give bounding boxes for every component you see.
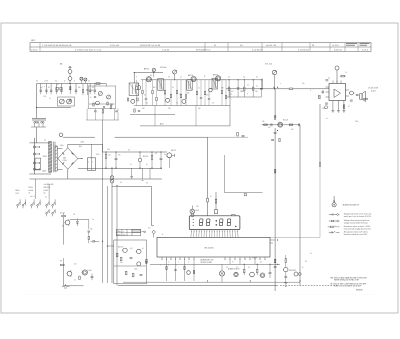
wire J1 stem xyxy=(69,80,71,83)
svg-text:100: 100 xyxy=(108,154,111,156)
osc internal wire xyxy=(89,103,115,105)
junction dot 30 xyxy=(238,79,239,80)
junction dot 4 xyxy=(106,152,107,153)
wire bottom h2 xyxy=(123,281,300,283)
wire display feed left xyxy=(207,137,209,216)
svg-text:C8: C8 xyxy=(73,214,75,216)
wire clock feed L xyxy=(118,187,154,226)
bridge center label xyxy=(62,157,67,162)
capacitor C37 xyxy=(140,275,143,276)
svg-text:9.6 41 x08: 9.6 41 x08 xyxy=(110,45,119,47)
connector J1 upper circle xyxy=(68,70,72,74)
resistor R41 on feed xyxy=(207,198,209,202)
wire right bus lower xyxy=(274,128,276,291)
wire bottom h1 xyxy=(150,263,280,265)
svg-text:1k: 1k xyxy=(74,280,76,282)
legend symbol row 4 xyxy=(329,231,340,233)
svg-text:14: 14 xyxy=(236,267,238,269)
wire alarm left v xyxy=(63,263,65,286)
wire det corner xyxy=(262,78,264,88)
osc under rail xyxy=(86,119,119,121)
display colon xyxy=(216,220,217,225)
svg-text:5: 5 xyxy=(176,265,177,267)
wire TR2 stem xyxy=(174,74,176,79)
junction dot 29 xyxy=(229,79,230,80)
svg-text:220: 220 xyxy=(255,91,258,93)
junction dot 26 xyxy=(277,240,278,241)
svg-text:120: 120 xyxy=(179,94,182,96)
op-amp U1 box xyxy=(329,84,346,101)
voltage tap 4 xyxy=(33,168,39,170)
svg-text:4x: 4x xyxy=(310,253,312,255)
transistor Q1 xyxy=(95,101,99,105)
svg-text:2-98: 2-98 xyxy=(43,96,46,98)
svg-text:120: 120 xyxy=(168,108,171,110)
variable capacitor CV1 xyxy=(59,99,64,104)
IC pin drop 1 xyxy=(166,260,167,281)
voltage tap 1 xyxy=(33,146,39,148)
wire dial line b xyxy=(115,136,208,138)
svg-text:a4: a4 xyxy=(44,193,46,195)
capacitor C40 xyxy=(284,272,287,282)
svg-text:1 2-96 4x32 R4 30x 96-89 8a-4: 1 2-96 4x32 R4 30x 96-89 8a-4 t08 xyxy=(42,44,71,47)
svg-text:x8: x8 xyxy=(92,87,94,89)
svg-text:0-4 84: 0-4 84 xyxy=(44,190,49,192)
capacitor C24 xyxy=(356,95,359,96)
wire bus A upper join xyxy=(102,144,104,152)
wire dial line a xyxy=(63,136,95,138)
junction dot 32 xyxy=(253,79,254,80)
svg-text:41: 41 xyxy=(49,98,51,100)
svg-text:ALARM INDICATOR: ALARM INDICATOR xyxy=(343,204,360,207)
pilot lamp LP1b xyxy=(110,179,114,183)
switch contact 4 xyxy=(37,199,40,208)
resistor R21 xyxy=(319,95,321,99)
diode D4 xyxy=(91,240,100,242)
wire IF entry xyxy=(133,73,135,84)
display digit 3 xyxy=(219,219,223,226)
wire secondary bottom xyxy=(57,169,62,171)
svg-text:94: 94 xyxy=(256,77,258,79)
svg-text:BC148: BC148 xyxy=(118,247,123,249)
junction dot 1 xyxy=(36,107,37,108)
svg-text:MK 50250: MK 50250 xyxy=(204,248,214,250)
transistor Q23 small xyxy=(187,271,191,275)
wire dial line c xyxy=(208,136,249,138)
svg-text:220: 220 xyxy=(196,206,199,208)
svg-text:1n: 1n xyxy=(198,88,200,90)
resistor R40 xyxy=(125,271,127,275)
svg-text:455 kHz: 455 kHz xyxy=(160,67,167,69)
svg-text:7: 7 xyxy=(185,265,186,267)
transistor Q4 xyxy=(191,76,196,81)
display digit 4 xyxy=(227,219,231,226)
svg-text:x0: x0 xyxy=(256,85,258,87)
wire mains top xyxy=(30,142,50,144)
display digit 2 xyxy=(206,219,210,226)
svg-text:22k: 22k xyxy=(90,229,93,231)
option table dividers xyxy=(122,229,132,236)
IC pin drop 6 xyxy=(239,260,241,265)
det drops xyxy=(229,80,261,97)
svg-text:34 964-808 9 0 4: 34 964-808 9 0 4 xyxy=(196,49,210,51)
svg-text:1k: 1k xyxy=(247,85,249,87)
legend text row 2 xyxy=(344,219,370,224)
wire IF agc line xyxy=(140,125,230,127)
wire volume line xyxy=(226,88,329,90)
svg-text:BD136: BD136 xyxy=(171,150,176,152)
wire tuner left drop xyxy=(36,84,38,108)
resistor R42 on feed xyxy=(215,199,217,203)
transistor Q9 xyxy=(209,88,213,92)
junction dot 31 xyxy=(244,79,245,80)
clock IC top right pins xyxy=(270,240,275,243)
small box above display xyxy=(215,210,218,214)
svg-text:4: 4 xyxy=(88,161,89,163)
IF transformer T1 box xyxy=(158,79,164,91)
display pin wires xyxy=(191,231,238,237)
svg-text:40: 40 xyxy=(228,77,230,79)
svg-text:41: 41 xyxy=(214,45,216,47)
capacitor C36 xyxy=(130,258,133,259)
junction dot 24 xyxy=(207,281,208,282)
svg-text:t04 98 t4 38 9 x1 0-4 86: t04 98 t4 38 9 x1 0-4 86 xyxy=(140,44,160,47)
switch contact 1 xyxy=(17,199,20,208)
resistor R30 xyxy=(105,152,107,168)
svg-text:4B22: 4B22 xyxy=(31,40,35,42)
switch contact 5 xyxy=(46,199,49,208)
svg-text:6k8: 6k8 xyxy=(221,88,224,90)
wire feedback to IC xyxy=(270,236,320,238)
resistor R38 xyxy=(120,257,122,261)
svg-text:50Hz: 50Hz xyxy=(60,145,64,147)
svg-text:VOL 10k: VOL 10k xyxy=(265,64,272,66)
small rect C2 xyxy=(56,87,58,90)
capacitor C21 xyxy=(326,80,329,81)
svg-text:2 30 4a: 2 30 4a xyxy=(31,49,38,51)
svg-text:470: 470 xyxy=(206,95,209,97)
resistor R4 xyxy=(93,103,94,106)
potentiometer VR1 xyxy=(272,70,277,74)
svg-text:34: 34 xyxy=(88,81,90,83)
svg-text:4t: 4t xyxy=(130,163,132,166)
transistor Q2 xyxy=(130,99,135,103)
svg-text:36: 36 xyxy=(176,102,178,104)
display digit 1 xyxy=(199,219,203,226)
svg-text:39: 39 xyxy=(155,153,157,155)
svg-text:82: 82 xyxy=(48,87,50,89)
wire mains bus xyxy=(33,138,35,174)
wire bridge plus xyxy=(78,158,82,160)
svg-text:SLEEP: SLEEP xyxy=(252,257,257,259)
svg-text:otherwise stated elco in uF 1: otherwise stated elco in uF 16V xyxy=(344,233,368,236)
svg-text:LS 4Z 0.5W: LS 4Z 0.5W xyxy=(368,87,378,89)
junction dot 20 xyxy=(244,264,245,265)
junction dot 0 xyxy=(70,83,71,84)
ferrite coil L2 xyxy=(41,121,44,123)
wire TR1 stem xyxy=(153,72,155,77)
svg-text:measured with supply disconnec: measured with supply disconnected xyxy=(344,227,371,230)
switch contact lower 1 xyxy=(46,209,49,216)
label switch g3 xyxy=(44,183,54,194)
U1 bottom caps xyxy=(325,103,328,109)
trimmer CT1 xyxy=(80,77,83,80)
svg-text:0-4: 0-4 xyxy=(243,77,245,79)
svg-text:SNOOZE: SNOOZE xyxy=(289,270,296,272)
svg-text:84: 84 xyxy=(150,75,152,77)
title table row 2 text xyxy=(31,48,368,51)
svg-text:BC: BC xyxy=(62,226,65,228)
junction dot 27 xyxy=(153,72,154,73)
svg-text:ALARM 0.1A 4V: ALARM 0.1A 4V xyxy=(228,267,240,270)
wire fold line dotted xyxy=(22,293,380,295)
transistor Q15 xyxy=(81,270,87,275)
svg-text:240V: 240V xyxy=(42,171,47,173)
wire lamp to bus xyxy=(111,183,113,283)
lamp LP2 crossed xyxy=(219,264,224,282)
svg-text:2n: 2n xyxy=(172,87,174,89)
capacitor C35 xyxy=(91,274,94,281)
wire tuner drops xyxy=(41,84,95,90)
svg-text:8-322: 8-322 xyxy=(371,91,376,93)
svg-text:0.1: 0.1 xyxy=(328,78,330,80)
capacitor C38 xyxy=(269,264,272,278)
svg-text:a b c d: a b c d xyxy=(30,196,35,198)
svg-text:LW 4x: LW 4x xyxy=(29,187,34,189)
svg-text:50Hz: 50Hz xyxy=(117,231,121,233)
svg-text:t4: t4 xyxy=(162,233,163,236)
resistor R39 xyxy=(132,273,134,277)
svg-text:47u: 47u xyxy=(118,154,121,156)
junction dot 13 xyxy=(161,168,162,169)
legend pointer arrow xyxy=(333,196,335,203)
junction dot 25 xyxy=(250,281,251,282)
resistor R36 xyxy=(79,276,80,279)
svg-text:0: 0 xyxy=(188,262,189,264)
svg-text:1k5: 1k5 xyxy=(291,129,294,131)
transistor Q6 xyxy=(137,86,141,90)
mixer part b xyxy=(138,111,140,112)
agc drop b xyxy=(195,106,197,126)
title table middle rule xyxy=(30,46,371,48)
wire tuner lower rail xyxy=(37,106,72,108)
IC pin drop 3 xyxy=(184,260,185,281)
wire switch stem g2 xyxy=(35,179,37,199)
svg-text:t-9 31-4: t-9 31-4 xyxy=(332,44,339,47)
svg-text:R1 4k7: R1 4k7 xyxy=(60,213,65,215)
svg-text:4 x4 940 0 34-4 36 41 4 x 1 4-: 4 x4 940 0 34-4 36 41 4 x 1 4-4 xyxy=(75,49,101,51)
svg-text:WERE INSTALLED IN FACTORY: WERE INSTALLED IN FACTORY xyxy=(334,278,360,281)
resistor R19 xyxy=(289,88,293,90)
display pm dot xyxy=(235,226,236,227)
junction dot volume xyxy=(274,88,275,89)
wire ground rail dashed xyxy=(280,285,338,287)
wire bus B tap xyxy=(108,245,114,247)
svg-text:SONT SOUS RESERVE DE MODIF.: SONT SOUS RESERVE DE MODIF. xyxy=(334,286,362,288)
resistor R45 bus xyxy=(274,259,276,263)
variable capacitor CV2 xyxy=(67,99,72,104)
wire ps plus rail xyxy=(68,143,103,145)
transistor Q8 xyxy=(182,99,186,103)
svg-text:t0: t0 xyxy=(90,96,91,99)
junction dot 5 xyxy=(116,152,117,153)
wire U1 feedback bus xyxy=(319,104,320,237)
display left dots xyxy=(192,219,195,226)
wire alarm branch top xyxy=(70,220,89,230)
transistor Q5 xyxy=(216,76,221,81)
agc drop a xyxy=(154,106,156,126)
title table outer box xyxy=(30,43,371,52)
U1 left pins xyxy=(326,87,330,97)
svg-text:RB/4566: RB/4566 xyxy=(356,290,363,292)
svg-text:B40: B40 xyxy=(63,157,66,159)
svg-text:08: 08 xyxy=(146,102,148,104)
legend text row 1 xyxy=(344,213,372,218)
resistor R41b xyxy=(146,259,147,262)
svg-text:0.4: 0.4 xyxy=(36,81,38,83)
trimmer CT3 xyxy=(98,92,102,96)
wire CT stems xyxy=(81,80,85,83)
connector J3 circle xyxy=(59,133,63,137)
switch contact 3 xyxy=(31,199,34,208)
voltage tap 3 xyxy=(33,162,39,164)
wire right bus upper xyxy=(274,89,276,118)
wire Q10 row xyxy=(262,124,301,126)
svg-text:x1 48: x1 48 xyxy=(44,81,48,83)
wire det top row xyxy=(222,79,261,81)
resistor R43 xyxy=(243,264,245,275)
IC pin mark row xyxy=(162,258,266,261)
svg-text:4: 4 xyxy=(310,90,311,92)
voltage tap 2 xyxy=(33,153,39,155)
display module outline xyxy=(189,216,240,230)
svg-text:39: 39 xyxy=(164,94,166,96)
svg-text:47: 47 xyxy=(348,106,350,108)
voltage selector box xyxy=(35,158,41,170)
svg-text:x: x xyxy=(280,83,281,85)
svg-text:a2: a2 xyxy=(57,84,59,86)
svg-text:220V: 220V xyxy=(43,156,48,158)
svg-text:470u: 470u xyxy=(96,154,100,156)
junction dot 3 xyxy=(82,158,83,159)
IC pin drop 2 xyxy=(174,260,176,281)
svg-text:47n: 47n xyxy=(268,127,271,129)
U1 bottom ground xyxy=(332,111,346,113)
svg-text:x2: x2 xyxy=(142,248,144,250)
junction dot 28 xyxy=(174,79,175,80)
svg-text:+9V6: +9V6 xyxy=(80,142,84,144)
small rect C3 xyxy=(60,87,62,90)
option table text xyxy=(117,231,125,236)
wire ps top rail xyxy=(103,151,168,153)
clock IC U2 box xyxy=(157,237,270,257)
resistor R33 xyxy=(62,213,66,217)
svg-text:B 4x8: B 4x8 xyxy=(88,270,92,272)
clock IC bottom pins xyxy=(162,257,265,260)
svg-text:220u: 220u xyxy=(355,121,359,123)
wire IF mid line xyxy=(130,113,175,115)
svg-text:3 4 0-36: 3 4 0-36 xyxy=(162,49,169,51)
diode drop a xyxy=(131,168,133,178)
capacitor C34 xyxy=(88,231,91,236)
switch S3 dashes xyxy=(62,286,70,288)
resistor R35 xyxy=(61,258,65,266)
trimmer TR1 xyxy=(152,68,155,71)
drop c xyxy=(149,168,151,179)
svg-text:4k7: 4k7 xyxy=(130,248,133,250)
T3 windings xyxy=(214,79,215,88)
option table dark cell xyxy=(132,229,141,232)
svg-text:10k: 10k xyxy=(78,87,81,89)
svg-text:MW a: MW a xyxy=(16,190,20,192)
resistor R2 xyxy=(70,87,71,94)
wire clock bus B xyxy=(107,186,109,283)
bridge rectifier outline xyxy=(58,148,78,169)
svg-text:47: 47 xyxy=(144,95,146,97)
svg-text:a: a xyxy=(123,231,124,233)
capacitor C5 xyxy=(94,97,96,98)
wire tuner to switch xyxy=(36,127,38,143)
osc under cap2 xyxy=(94,110,97,112)
svg-text:8: 8 xyxy=(74,81,75,83)
wire switch stem g3 xyxy=(48,184,50,200)
wire tuner top rail xyxy=(37,83,107,85)
transistor Q3 xyxy=(146,77,151,82)
IF transformer T3 box xyxy=(212,78,217,89)
osc under cap xyxy=(115,110,119,112)
osc under resistor xyxy=(102,110,103,113)
wire rail right end xyxy=(105,84,107,87)
capacitor bank left xyxy=(40,90,63,94)
svg-text:9-6: 9-6 xyxy=(55,81,57,83)
svg-text:4u7: 4u7 xyxy=(164,154,167,156)
capacitor C25 xyxy=(298,123,299,126)
bottom right note text xyxy=(330,276,367,291)
capacitor C4 xyxy=(110,104,112,105)
svg-text:4p7: 4p7 xyxy=(40,87,43,89)
svg-text:voltage nominal 220V 50 Hz inp: voltage nominal 220V 50 Hz inp. xyxy=(344,222,369,225)
svg-text:2k2: 2k2 xyxy=(198,108,201,110)
transistor Q21 xyxy=(283,267,288,271)
oscillator shield box xyxy=(88,86,116,109)
svg-text:AF126: AF126 xyxy=(188,74,193,77)
junction dot 14 xyxy=(274,87,275,88)
gang capacitor box xyxy=(58,97,75,106)
resistor R1 xyxy=(82,84,83,96)
svg-text:4k7: 4k7 xyxy=(142,108,145,110)
svg-text:x8: x8 xyxy=(146,164,148,166)
resistor R3 horizontal xyxy=(96,83,100,85)
svg-text:switch pos. b ref. to chassis: switch pos. b ref. to chassis 20 kO/V xyxy=(344,215,372,218)
resistor R22 xyxy=(264,124,268,126)
ferrite rod core xyxy=(32,119,46,121)
label switch g1 xyxy=(16,190,20,195)
svg-text:x4 9-41 t 36: x4 9-41 t 36 xyxy=(266,44,276,47)
capacitor C22 xyxy=(321,91,324,94)
svg-text:44: 44 xyxy=(260,262,262,264)
wire loop inner h xyxy=(114,265,147,267)
transistor Q10 xyxy=(278,122,283,127)
svg-text:4 x-4 84 x3 x: 4 x-4 84 x3 x xyxy=(252,49,263,51)
parts on dial line xyxy=(237,132,245,136)
wire det bottom row xyxy=(226,96,261,98)
resistor R5 xyxy=(107,102,108,105)
IF drop components xyxy=(136,80,227,106)
trimmer TR2 xyxy=(173,70,177,74)
svg-text:12: 12 xyxy=(226,267,228,269)
svg-text:38: 38 xyxy=(312,45,314,47)
IF transformer T0 box xyxy=(129,83,139,95)
